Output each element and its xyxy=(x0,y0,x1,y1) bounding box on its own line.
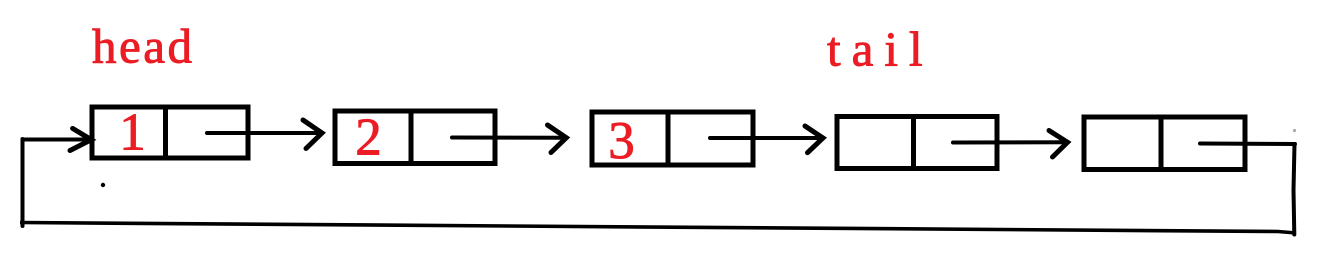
arrow node2 -> node3 xyxy=(452,125,566,153)
svg-text:head: head xyxy=(92,19,195,74)
wire left vertical up xyxy=(21,139,25,226)
arrow node1 -> node2 xyxy=(207,120,322,149)
node box 4 xyxy=(837,114,997,171)
node box 1 xyxy=(92,105,248,161)
svg-text:3: 3 xyxy=(608,112,635,170)
arrow node3 -> node4 xyxy=(710,126,823,153)
node box 2 xyxy=(335,109,495,167)
wire bottom horizontal xyxy=(20,223,1296,234)
svg-text:tail: tail xyxy=(827,22,934,77)
arrow node4 -> node5 xyxy=(953,131,1068,158)
wire node5 pointer to right edge xyxy=(1200,142,1295,147)
svg-text:2: 2 xyxy=(355,109,382,167)
arrow feedback into node1 xyxy=(23,128,92,150)
node box 3 xyxy=(592,110,753,168)
faint speck top right xyxy=(1293,129,1296,132)
node box 5 xyxy=(1084,115,1245,172)
wire right vertical down xyxy=(1294,144,1295,235)
stray dot xyxy=(101,183,105,187)
svg-text:1: 1 xyxy=(119,104,146,162)
